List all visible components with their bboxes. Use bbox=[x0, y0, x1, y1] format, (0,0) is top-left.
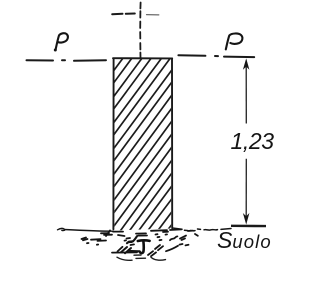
left axis dash-dot line bbox=[27, 59, 107, 62]
horizontal centerline dashes at top bbox=[112, 13, 135, 16]
svg-text:1,23: 1,23 bbox=[231, 128, 275, 154]
T anchor mark in soil bbox=[138, 240, 150, 253]
dimension line 1,23 (vertical with arrows) bbox=[245, 61, 247, 220]
svg-text:Suolo: Suolo bbox=[217, 227, 272, 253]
right P label bbox=[226, 33, 243, 49]
snake squiggle bbox=[170, 236, 177, 240]
double slashes mid-right bbox=[155, 245, 160, 249]
ground line right of column bbox=[173, 228, 232, 231]
lower boundary arcs of soil patch bbox=[117, 255, 166, 260]
dots right of T bbox=[156, 233, 158, 235]
column hatching bbox=[104, 8, 180, 245]
vertical centerline (dash) bbox=[139, 3, 141, 59]
left P label bbox=[56, 33, 68, 49]
suolo ground bar bbox=[231, 225, 266, 228]
soil scribbles under column bbox=[82, 229, 198, 256]
diagonal cluster lower-left of T bbox=[121, 247, 127, 252]
right axis dash-dot line bbox=[178, 55, 254, 57]
ground line left of column bbox=[58, 228, 114, 231]
squiggle cluster left of T bbox=[127, 236, 137, 243]
column outline (left, top, right edges) bbox=[113, 58, 172, 229]
right boundary arc bbox=[166, 246, 178, 251]
